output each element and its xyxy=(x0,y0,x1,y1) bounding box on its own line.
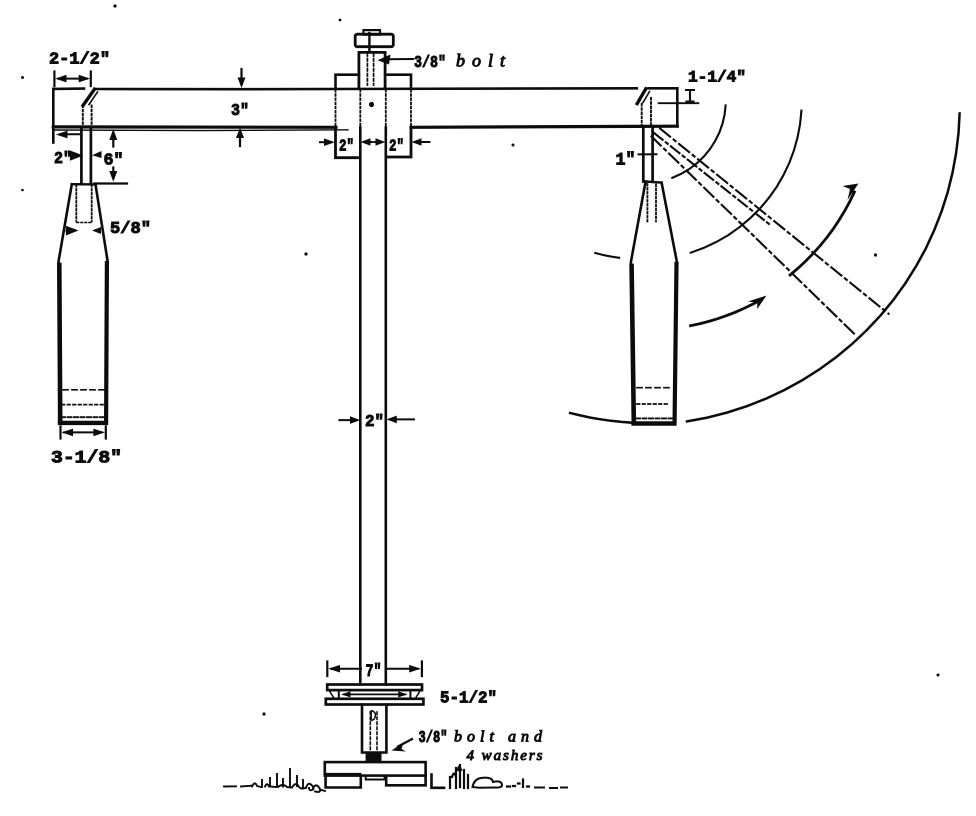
guide plate below beam xyxy=(336,127,412,157)
arrow arc upper xyxy=(790,192,854,275)
arrowhead of upper arrow arc xyxy=(843,184,859,201)
svg-text:3": 3" xyxy=(231,102,249,121)
right mallet xyxy=(631,182,677,424)
dim 1-1/4 notch depth xyxy=(659,69,746,104)
grass scribble left of base xyxy=(224,769,325,792)
bottom bolt tip loop xyxy=(371,711,375,721)
svg-text:6": 6" xyxy=(104,152,124,171)
disc middle lens edges xyxy=(330,691,421,698)
bottom bolt dashed xyxy=(370,712,377,751)
arrowhead of lower arrow arc xyxy=(748,296,767,310)
dim 7 disc xyxy=(327,662,422,683)
guide plate above beam xyxy=(336,75,412,89)
svg-text:2": 2" xyxy=(54,150,72,169)
guide plate hidden edges through beam (dotted) xyxy=(336,90,412,127)
svg-text:4 washers: 4 washers xyxy=(467,748,543,764)
disc lower plate xyxy=(326,699,424,705)
svg-text:1": 1" xyxy=(616,151,636,171)
svg-text:2": 2" xyxy=(339,137,354,156)
left notch kerf xyxy=(83,89,98,127)
dash-dot swing line upper twin xyxy=(654,133,769,224)
grass scribble right of base xyxy=(432,765,568,788)
base centre tab xyxy=(366,776,385,780)
dash-dot swing line lower xyxy=(652,137,857,336)
post tenon boss xyxy=(359,52,385,88)
swing arc inner xyxy=(672,105,725,177)
base plank xyxy=(325,762,426,776)
tick across right rod xyxy=(639,153,657,155)
centre post xyxy=(360,127,386,684)
dim 2 plate blocks xyxy=(320,137,430,156)
bottom bolt block xyxy=(362,705,386,753)
label 3/8 bolt top xyxy=(378,51,506,74)
svg-text:1-1/4": 1-1/4" xyxy=(688,69,746,87)
3/8 bolt shank (hidden, dashed) xyxy=(367,54,373,86)
svg-text:2": 2" xyxy=(389,137,404,156)
svg-text:bolt and: bolt and xyxy=(454,729,543,746)
arrow arc lower xyxy=(691,301,759,326)
dash-dot swing line upper xyxy=(660,129,889,314)
dim 5/8 rod width xyxy=(67,220,152,239)
dim 2 left beam end xyxy=(54,131,102,169)
dim 2 mid post xyxy=(339,413,414,432)
svg-text:3-1/8": 3-1/8" xyxy=(51,449,122,469)
swing arc second, left segment xyxy=(595,253,619,258)
label 3/8 bolt and 4 washers xyxy=(392,728,544,764)
svg-text:2": 2" xyxy=(365,413,384,432)
right hanger rod xyxy=(643,126,652,182)
dim 2-1/2 top left xyxy=(49,51,110,87)
beam xyxy=(53,88,677,142)
nut and washers xyxy=(367,754,381,761)
left mallet xyxy=(59,184,108,423)
big outer arc, left segment behind mallet xyxy=(570,413,632,423)
svg-text:2-1/2": 2-1/2" xyxy=(49,51,110,70)
dim 3-1/8 mallet width xyxy=(51,427,122,469)
swing arc second xyxy=(691,111,802,253)
dim 6 left xyxy=(94,129,127,184)
5-1/2 dim ticks xyxy=(339,691,411,700)
big outer arc xyxy=(687,113,960,421)
svg-text:7": 7" xyxy=(366,662,382,682)
svg-text:5-1/2": 5-1/2" xyxy=(440,690,497,709)
svg-text:3/8": 3/8" xyxy=(419,728,448,747)
base left foot xyxy=(326,776,361,788)
wing nut xyxy=(355,30,393,52)
svg-text:3/8": 3/8" xyxy=(414,54,446,73)
5-1/2 dim arrows xyxy=(344,693,405,695)
base right foot xyxy=(386,776,425,786)
dim 3 beam depth xyxy=(231,69,249,146)
svg-text:5/8": 5/8" xyxy=(110,220,151,239)
svg-text:bolt: bolt xyxy=(456,51,506,71)
disc upper plate xyxy=(327,685,422,691)
base plank joint line xyxy=(327,773,361,775)
left hanger rod xyxy=(81,127,91,184)
bolt hole centre dot xyxy=(369,102,374,107)
right notch kerf xyxy=(637,89,651,126)
